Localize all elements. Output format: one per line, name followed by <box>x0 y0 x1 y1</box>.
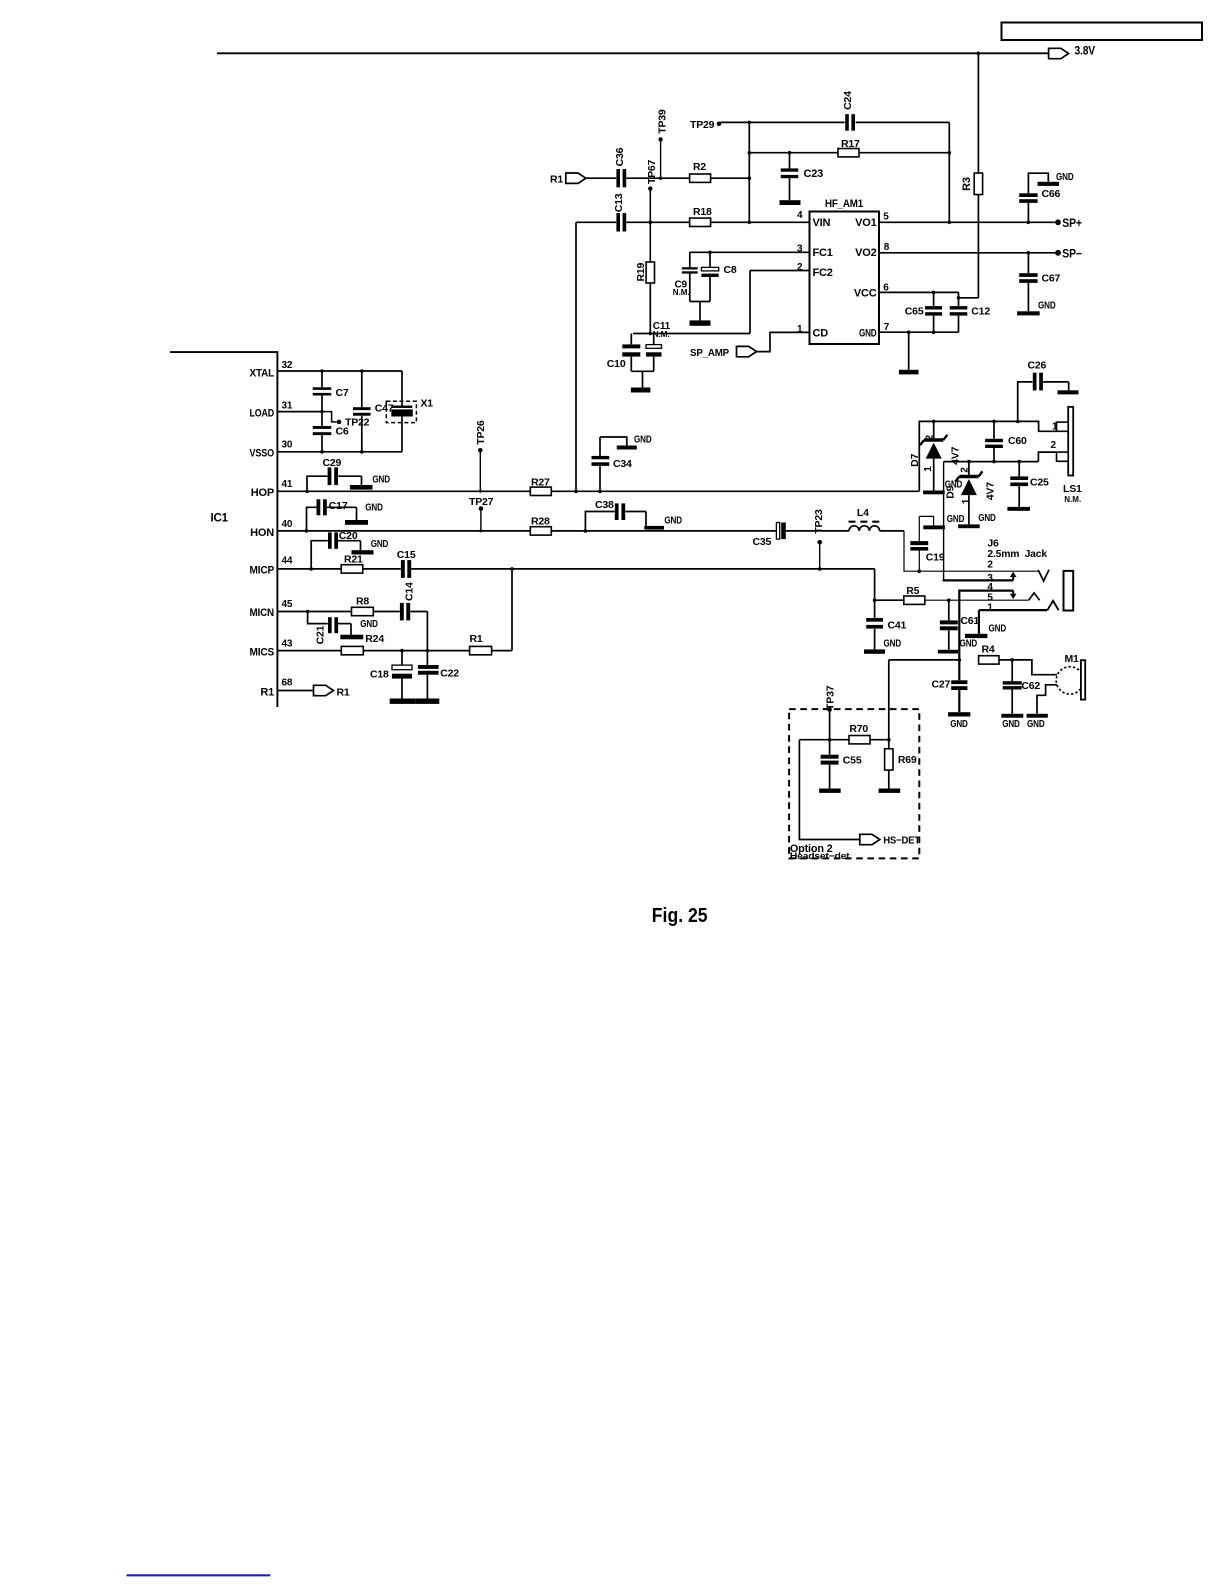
svg-text:C55: C55 <box>843 755 862 767</box>
svg-text:4: 4 <box>797 210 803 221</box>
svg-text:2: 2 <box>960 467 971 473</box>
svg-text:3.8V: 3.8V <box>1075 45 1096 57</box>
svg-text:VO1: VO1 <box>855 217 876 229</box>
svg-text:D7: D7 <box>909 453 921 466</box>
svg-text:XTAL: XTAL <box>250 368 275 380</box>
svg-text:GND: GND <box>978 512 996 524</box>
svg-text:C12: C12 <box>971 305 990 317</box>
svg-text:1: 1 <box>987 602 993 613</box>
svg-text:CD: CD <box>813 328 829 340</box>
svg-text:FC1: FC1 <box>813 247 833 259</box>
svg-text:GND: GND <box>634 433 652 445</box>
svg-text:R28: R28 <box>531 515 550 527</box>
svg-text:C65: C65 <box>905 305 924 317</box>
svg-text:R24: R24 <box>365 633 384 645</box>
svg-text:VO2: VO2 <box>855 247 876 259</box>
svg-text:R1: R1 <box>260 687 274 699</box>
svg-text:MICP: MICP <box>250 565 275 577</box>
svg-text:TP29: TP29 <box>690 119 715 131</box>
svg-text:HON: HON <box>250 527 274 539</box>
svg-text:68: 68 <box>282 678 293 689</box>
svg-text:M1: M1 <box>1065 653 1080 665</box>
svg-text:C41: C41 <box>888 620 907 632</box>
svg-text:X1: X1 <box>421 398 434 410</box>
svg-text:C36: C36 <box>614 147 626 166</box>
svg-text:40: 40 <box>282 519 293 530</box>
svg-text:R1: R1 <box>337 687 350 699</box>
svg-text:C24: C24 <box>842 91 854 110</box>
svg-text:8: 8 <box>884 242 890 253</box>
svg-text:TP67: TP67 <box>646 159 658 184</box>
svg-text:C25: C25 <box>1030 476 1049 488</box>
svg-text:C8: C8 <box>724 264 737 276</box>
svg-text:R19: R19 <box>635 263 647 282</box>
svg-text:GND: GND <box>947 513 965 525</box>
svg-text:GND: GND <box>664 515 682 527</box>
svg-text:C29: C29 <box>323 457 342 469</box>
svg-text:R1: R1 <box>470 633 483 645</box>
svg-text:LS1: LS1 <box>1063 483 1082 495</box>
svg-text:C21: C21 <box>315 625 327 644</box>
svg-text:HF_AM1: HF_AM1 <box>825 198 863 210</box>
svg-text:C62: C62 <box>1021 680 1040 692</box>
svg-text:41: 41 <box>282 479 293 490</box>
svg-text:TP37: TP37 <box>825 685 837 710</box>
svg-text:1: 1 <box>923 466 934 472</box>
svg-text:C47: C47 <box>375 403 394 415</box>
svg-text:GND: GND <box>1038 299 1056 311</box>
svg-text:SP_AMP: SP_AMP <box>690 347 729 359</box>
svg-text:SP+: SP+ <box>1062 218 1082 230</box>
svg-text:5: 5 <box>883 211 889 222</box>
svg-text:N.M.: N.M. <box>673 288 690 297</box>
svg-text:GND: GND <box>884 637 902 649</box>
svg-text:4V7: 4V7 <box>984 482 996 500</box>
svg-text:C27: C27 <box>932 679 951 691</box>
svg-text:SP−: SP− <box>1062 249 1082 261</box>
svg-text:2: 2 <box>987 559 993 570</box>
svg-text:C67: C67 <box>1042 273 1061 285</box>
svg-text:R8: R8 <box>356 595 369 607</box>
svg-text:GND: GND <box>859 328 877 340</box>
svg-text:R5: R5 <box>906 585 919 597</box>
svg-text:FC2: FC2 <box>813 267 833 279</box>
svg-text:LOAD: LOAD <box>250 408 275 420</box>
svg-text:MICN: MICN <box>250 607 275 619</box>
svg-text:MICS: MICS <box>250 646 275 658</box>
svg-text:1: 1 <box>961 498 972 504</box>
svg-text:VSSO: VSSO <box>250 447 275 459</box>
svg-text:L4: L4 <box>857 507 869 519</box>
svg-text:GND: GND <box>1027 718 1045 730</box>
svg-text:C10: C10 <box>607 358 626 370</box>
svg-text:C61: C61 <box>960 615 979 627</box>
svg-text:HOP: HOP <box>251 487 274 499</box>
svg-text:C66: C66 <box>1042 188 1061 200</box>
svg-text:GND: GND <box>960 638 978 650</box>
svg-text:C34: C34 <box>613 458 632 470</box>
svg-text:R27: R27 <box>531 476 550 488</box>
svg-text:C26: C26 <box>1028 360 1047 372</box>
svg-text:GND: GND <box>1002 718 1020 730</box>
svg-text:VIN: VIN <box>813 217 831 229</box>
svg-text:1: 1 <box>797 324 803 335</box>
svg-text:C18: C18 <box>370 668 389 680</box>
svg-text:GND: GND <box>371 538 389 550</box>
svg-text:C15: C15 <box>397 549 416 561</box>
svg-text:2: 2 <box>925 434 936 440</box>
svg-text:IC1: IC1 <box>211 513 229 525</box>
svg-text:TP39: TP39 <box>657 109 669 134</box>
svg-text:HS−DET: HS−DET <box>883 835 921 847</box>
svg-text:GND: GND <box>372 474 390 486</box>
svg-text:C35: C35 <box>753 536 772 548</box>
svg-text:C20: C20 <box>339 530 358 542</box>
svg-text:C23: C23 <box>804 168 824 180</box>
svg-text:C38: C38 <box>595 499 614 511</box>
svg-text:C13: C13 <box>613 193 625 212</box>
svg-text:R4: R4 <box>982 643 995 655</box>
svg-text:R70: R70 <box>849 723 868 735</box>
svg-text:GND: GND <box>989 623 1007 635</box>
svg-text:C22: C22 <box>440 668 459 680</box>
svg-text:R17: R17 <box>841 138 860 150</box>
svg-text:C17: C17 <box>329 500 348 512</box>
svg-text:TP23: TP23 <box>813 509 825 534</box>
svg-text:C14: C14 <box>404 582 416 601</box>
svg-text:44: 44 <box>282 556 293 567</box>
svg-text:GND: GND <box>365 501 383 513</box>
svg-text:30: 30 <box>282 440 293 451</box>
svg-text:R2: R2 <box>693 161 706 173</box>
svg-text:Headset−det: Headset−det <box>790 851 851 862</box>
svg-text:31: 31 <box>282 401 293 412</box>
svg-text:R3: R3 <box>961 177 973 191</box>
svg-text:R18: R18 <box>693 206 712 218</box>
svg-text:VCC: VCC <box>854 287 877 299</box>
svg-text:2: 2 <box>1051 440 1057 451</box>
svg-text:45: 45 <box>282 599 293 610</box>
svg-text:R69: R69 <box>898 754 917 766</box>
svg-text:43: 43 <box>282 639 293 650</box>
svg-text:32: 32 <box>282 360 293 371</box>
svg-text:1: 1 <box>1052 421 1058 432</box>
svg-text:D9: D9 <box>945 485 957 498</box>
svg-text:R1: R1 <box>550 174 563 186</box>
svg-text:C7: C7 <box>336 387 349 399</box>
svg-text:Fig. 25: Fig. 25 <box>652 905 708 927</box>
svg-text:GND: GND <box>950 718 968 730</box>
svg-text:C60: C60 <box>1008 435 1027 447</box>
svg-text:TP26: TP26 <box>475 420 487 445</box>
svg-text:TP22: TP22 <box>345 417 370 429</box>
svg-text:TP27: TP27 <box>469 496 494 508</box>
svg-text:N.M.: N.M. <box>1064 495 1081 504</box>
svg-text:2.5mm Jack: 2.5mm Jack <box>987 548 1047 560</box>
svg-text:N.M.: N.M. <box>653 330 670 339</box>
svg-text:R21: R21 <box>344 554 363 566</box>
svg-text:GND: GND <box>1056 171 1074 183</box>
svg-text:GND: GND <box>360 618 378 630</box>
svg-text:C19: C19 <box>926 551 945 563</box>
